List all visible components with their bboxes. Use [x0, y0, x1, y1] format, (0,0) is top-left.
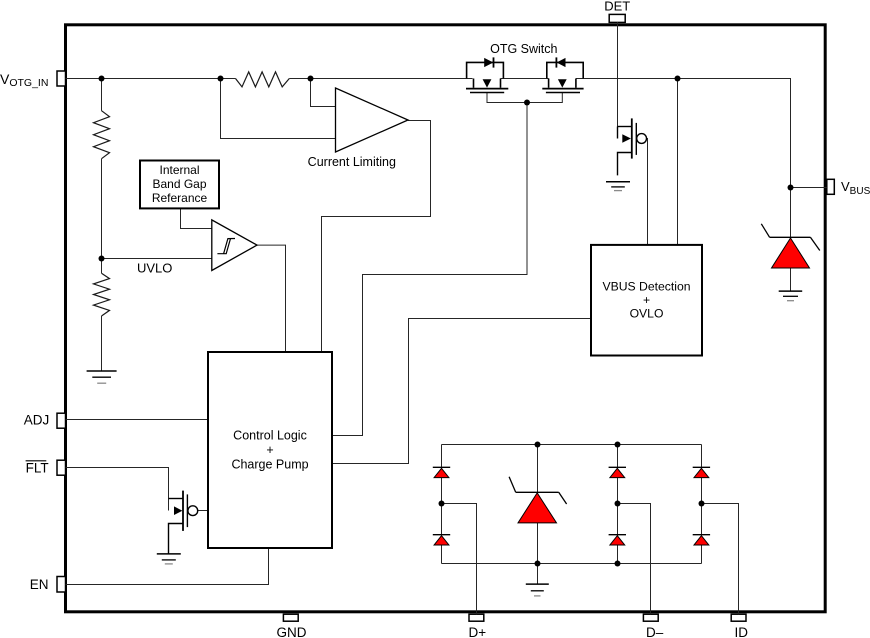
wire ID tap: [702, 504, 739, 615]
diode D7 (ESD branch4 top): [693, 466, 710, 468]
block U3 Control Logic + Charge Pump: [208, 352, 332, 548]
svg-text:D+: D+: [468, 625, 486, 638]
wire rail after R3 to left OTG FET: [289, 78, 472, 80]
wire between R1 and UVLO tap node and R2: [101, 159, 103, 274]
wire ESD branch 3 vertical: [617, 445, 619, 564]
svg-text:EN: EN: [30, 577, 49, 592]
pin GND: [283, 614, 298, 621]
node ESD bottom rail zener: [535, 561, 541, 567]
transistor Q1B (OTG switch right) body-diode loop: [547, 62, 583, 78]
wire UVLO tap to comparator input: [102, 258, 212, 260]
pin FLT: [57, 460, 66, 475]
op-amp U1 Current Limiting: [336, 88, 409, 152]
diode D2 (ESD branch1 bottom): [433, 534, 450, 536]
wire rail node down to VBUS detection box top: [677, 79, 679, 245]
svg-text:Internal: Internal: [159, 163, 199, 177]
diode D1B (Q1B body diode): [557, 58, 566, 67]
ground (VBUS zener): [779, 291, 803, 301]
svg-text:OTG Switch: OTG Switch: [490, 42, 557, 56]
resistor R2 (divider lower, vertical): [94, 273, 110, 316]
ground (Q3 source): [606, 182, 630, 191]
node ESD branch3 mid: [615, 501, 621, 507]
svg-text:GND: GND: [277, 625, 307, 638]
wire Q2 gate to control logic: [198, 510, 208, 512]
wire node B down to upper input of current limit amp: [311, 79, 336, 107]
svg-text:ID: ID: [735, 625, 749, 638]
wire ESD network top rail: [442, 444, 702, 446]
ground (Q2 source): [157, 554, 181, 564]
wire D- tap: [618, 504, 651, 615]
wire divider top: node down to R1: [101, 79, 103, 111]
wire OTG gate bus: [487, 93, 562, 103]
wire ESD network bottom rail: [442, 563, 702, 565]
wire D+ tap: [442, 504, 477, 615]
zener diode D5 (VBUS clamp): [761, 224, 820, 251]
pin EN: [57, 577, 66, 593]
wire ESD branch 4 vertical: [701, 445, 703, 564]
diode D4 (ESD branch3 bottom): [609, 534, 626, 536]
svg-text:UVLO: UVLO: [137, 261, 172, 276]
svg-text:VBUS Detection: VBUS Detection: [602, 280, 690, 294]
wire ESD zener branch vertical to ground: [537, 445, 539, 585]
zener diode D6 (ESD center clamp): [509, 477, 566, 504]
pin ADJ: [57, 413, 66, 428]
pin VOTG_IN: [57, 71, 66, 86]
svg-text:+: +: [266, 443, 273, 457]
wire Q3 gate down to VBUS detection box top: [647, 139, 648, 245]
node ESD top rail branch3: [615, 442, 621, 448]
pin VBUS: [827, 179, 835, 194]
wire EN pin to control logic bottom: [66, 548, 269, 585]
wire VBUS detection box to control logic right side: [332, 319, 591, 464]
block U5 VBUS Detection + OVLO: [591, 245, 702, 356]
wire rail right segment to VBUS corner: [576, 79, 791, 188]
node rail-VBUS detection junction: [675, 76, 681, 82]
node B: [308, 76, 314, 82]
node A: [218, 76, 224, 82]
wire OTG gate node to control logic right side: [332, 103, 527, 436]
resistor R3 (current sense, horizontal): [236, 72, 290, 87]
wire UVLO comparator output to control logic top: [257, 245, 286, 352]
pin ID: [731, 614, 746, 621]
svg-text:VBUS: VBUS: [841, 179, 870, 197]
svg-text:Control Logic: Control Logic: [233, 429, 307, 443]
transistor Q1A (OTG switch left) body-diode loop: [467, 62, 504, 78]
wire VOTG_IN rail left segment: [66, 78, 236, 80]
wire ADJ pin to control logic left: [66, 419, 209, 421]
wire bandgap box to comparator input: [181, 208, 212, 228]
wire rail segment between OTG FETs: [501, 78, 549, 80]
block U2 Internal Band Gap Referance: [140, 161, 219, 209]
diode D3 (ESD branch3 top): [609, 466, 626, 468]
pin DET: [609, 14, 625, 22]
node ESD branch4 mid: [699, 501, 705, 507]
diode D8 (ESD branch4 bottom): [693, 534, 710, 536]
pin D-: [643, 614, 658, 621]
node OTG common gate: [524, 100, 530, 106]
wire current limit output to control logic top: [322, 121, 431, 353]
node rail-divider junction: [99, 76, 105, 82]
transistor Q3 (DET pulldown NMOS): [618, 118, 647, 175]
wire FLT pin to Q2 drain: [66, 468, 169, 511]
wire DET pin down to Q3 drain: [617, 22, 619, 127]
node ESD top rail zener: [535, 442, 541, 448]
comparator U4 UVLO with hysteresis mark: [212, 220, 257, 271]
transistor Q1A channel structure: [466, 79, 508, 93]
svg-text:Referance: Referance: [152, 191, 208, 205]
node UVLO divider tap: [99, 256, 105, 262]
svg-text:Band Gap: Band Gap: [152, 177, 206, 191]
svg-text:Charge Pump: Charge Pump: [231, 457, 308, 471]
svg-text:D–: D–: [646, 625, 664, 638]
transistor Q2 (FLT pulldown NMOS): [169, 491, 198, 554]
wire ESD branch 1 vertical: [441, 445, 443, 564]
diode D1A (Q1A body diode): [484, 58, 493, 67]
node ESD bottom rail branch3: [615, 561, 621, 567]
svg-text:ADJ: ADJ: [24, 413, 50, 428]
svg-text:+: +: [643, 293, 650, 307]
svg-text:Current Limiting: Current Limiting: [308, 155, 396, 169]
svg-text:VOTG_IN: VOTG_IN: [0, 71, 48, 89]
ground (UVLO divider bottom): [87, 371, 117, 383]
node ESD branch1 mid: [439, 501, 445, 507]
wire node A down to lower input of current limit amp: [221, 79, 336, 139]
diode D1 (ESD branch1 top): [433, 466, 450, 468]
wire R2 bottom to ground: [101, 316, 103, 371]
resistor R1 (divider upper, vertical): [94, 111, 110, 159]
wire VBUS node to pin: [791, 187, 827, 189]
wire VBUS node down to zener and ground: [790, 188, 792, 292]
ground (ESD zener): [526, 584, 549, 596]
transistor Q1B channel structure: [542, 79, 583, 93]
svg-text:OVLO: OVLO: [630, 306, 664, 320]
pin D+: [469, 614, 484, 621]
node VBUS pin junction: [788, 185, 794, 191]
svg-text:FLT: FLT: [26, 461, 49, 476]
svg-text:DET: DET: [604, 0, 630, 14]
